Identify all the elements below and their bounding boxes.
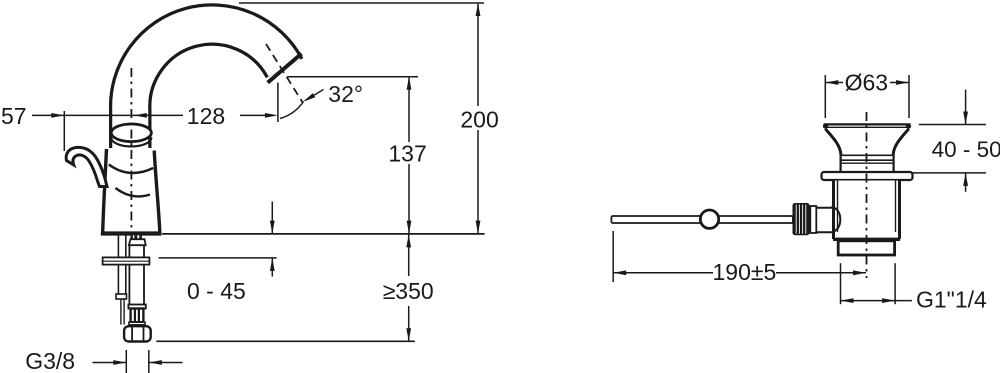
drain body <box>833 181 900 240</box>
svg-text:32°: 32° <box>328 81 363 107</box>
knurled adjuster <box>793 203 810 235</box>
body collar curve lower <box>116 188 151 196</box>
tee inlet dome <box>832 207 841 233</box>
lift rod lower <box>121 299 124 325</box>
shank top collar <box>129 239 146 245</box>
drain funnel rim <box>823 124 911 129</box>
top reference line <box>239 2 484 4</box>
spout tip face <box>268 54 302 83</box>
32deg axis dashed <box>266 44 303 103</box>
dim 200 <box>460 3 498 234</box>
drain tailpiece <box>838 241 894 255</box>
svg-text:Ø63: Ø63 <box>845 70 888 96</box>
centerline drain <box>866 112 868 278</box>
dim dia63 <box>825 70 909 118</box>
shank mid collar <box>128 305 145 309</box>
drain funnel flare <box>825 129 909 155</box>
supply nut <box>124 326 151 341</box>
cartridge tabs <box>131 235 143 239</box>
funnel neck rings <box>841 155 894 173</box>
rod ball <box>700 210 718 228</box>
counter top line <box>162 233 485 235</box>
svg-text:G3/8: G3/8 <box>25 348 75 373</box>
shank cylinder <box>129 245 144 304</box>
dim 128 <box>134 83 278 129</box>
centerline faucet <box>130 68 132 232</box>
dim 40-50 <box>911 90 1000 192</box>
svg-text:57: 57 <box>1 103 27 129</box>
svg-text:40 - 50: 40 - 50 <box>932 137 1000 162</box>
svg-text:190±5: 190±5 <box>713 259 777 285</box>
aerator ring bottom arc <box>111 138 151 147</box>
svg-text:137: 137 <box>388 141 426 167</box>
counter bottom line <box>159 257 277 259</box>
drain flange disc <box>822 172 913 180</box>
svg-text:128: 128 <box>187 103 225 129</box>
angle arc 32 <box>280 81 363 119</box>
body collar curve upper <box>109 165 153 173</box>
shank threads <box>131 309 144 323</box>
dim 0-45 <box>187 202 275 305</box>
bottom reference line <box>156 340 415 342</box>
lift rod ferrule <box>116 294 127 299</box>
dim 190 <box>613 231 866 285</box>
tee inlet rect <box>817 208 834 232</box>
svg-text:≥350: ≥350 <box>383 278 434 304</box>
faucet body <box>103 149 160 232</box>
faucet spout tube <box>130 25 284 148</box>
mounting flange <box>103 257 150 264</box>
shank thread collar <box>129 322 145 325</box>
svg-text:G1"1/4: G1"1/4 <box>916 287 987 313</box>
lift rod tube <box>118 236 125 295</box>
dim G3/8 <box>25 348 182 373</box>
faucet base bottom <box>101 231 162 235</box>
handle lever <box>66 147 107 186</box>
spout tip reference line <box>287 76 418 78</box>
pop-up rod <box>611 216 793 223</box>
knurled collar white <box>810 206 816 233</box>
svg-text:200: 200 <box>460 107 498 133</box>
dim 57 <box>1 103 183 151</box>
dim 137 <box>388 77 426 234</box>
svg-text:0 - 45: 0 - 45 <box>187 278 246 304</box>
dim >=350 <box>383 234 434 341</box>
dim G1 1/4 <box>841 263 988 312</box>
aerator ring ellipse <box>111 124 151 142</box>
